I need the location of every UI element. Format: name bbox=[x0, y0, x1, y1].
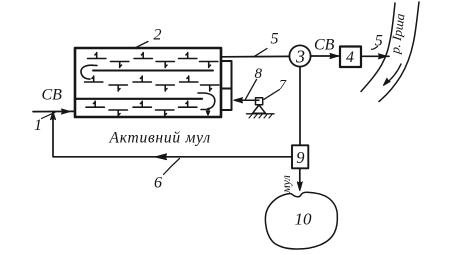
svg-text:СВ: СВ bbox=[42, 87, 63, 104]
aerator row 1 bbox=[88, 53, 218, 68]
leader for label 6 bbox=[164, 159, 180, 175]
ground line with hatching bbox=[247, 113, 275, 115]
svg-text:10: 10 bbox=[295, 209, 313, 228]
line box 4 to river with arrow bbox=[361, 55, 389, 57]
right U-turn hairpin bbox=[198, 93, 215, 114]
leader mark for label 5 right bbox=[372, 47, 378, 50]
leader for label 2 bbox=[136, 42, 149, 48]
baffle divider line upper bbox=[93, 70, 213, 72]
svg-text:5: 5 bbox=[271, 31, 279, 48]
svg-text:Активний мул: Активний мул bbox=[109, 129, 211, 146]
pond 10 outline bbox=[265, 192, 337, 249]
svg-text:6: 6 bbox=[154, 175, 162, 192]
aeration tank 2 outline bbox=[75, 48, 221, 117]
svg-text:9: 9 bbox=[296, 148, 304, 167]
leader for label 8 bbox=[246, 80, 257, 100]
river flow arrow bbox=[385, 64, 402, 85]
leader for label 1 bbox=[42, 112, 56, 118]
line box 9 down to pond with arrow bbox=[299, 168, 301, 188]
inlet line CB with arrow into tank bbox=[33, 110, 75, 112]
svg-text:5: 5 bbox=[375, 33, 383, 50]
box 9 bbox=[292, 145, 308, 168]
svg-text:4: 4 bbox=[346, 49, 354, 66]
aerator row 2 bbox=[85, 76, 219, 91]
river left bank bbox=[361, 3, 395, 92]
svg-text:СВ: СВ bbox=[314, 37, 335, 54]
svg-text:3: 3 bbox=[295, 46, 305, 66]
svg-text:7: 7 bbox=[279, 78, 287, 93]
leader for label 7 bbox=[264, 90, 280, 100]
leader for label 5 bbox=[255, 49, 268, 57]
vertical line circle 3 down to box 9 bbox=[299, 67, 301, 145]
return line arrow pointing left bbox=[156, 154, 167, 160]
svg-text:2: 2 bbox=[154, 27, 162, 44]
box 4 bbox=[340, 47, 361, 68]
settling compartment attached right bbox=[223, 61, 232, 110]
circle 3 secondary clarifier bbox=[289, 45, 310, 66]
left U-turn hairpin bbox=[81, 65, 97, 79]
lever arm 8 with arrow into settler bbox=[235, 99, 260, 101]
svg-text:8: 8 bbox=[255, 66, 263, 82]
svg-text:1: 1 bbox=[34, 117, 42, 134]
baffle divider line lower bbox=[76, 98, 202, 100]
return sludge line from box 9 bbox=[53, 113, 292, 157]
pivot triangle bbox=[253, 105, 266, 113]
pivot square 7 bbox=[256, 98, 263, 105]
river right bank bbox=[379, 2, 419, 102]
svg-text:мул: мул bbox=[279, 175, 293, 194]
arrow up into inlet line bbox=[51, 112, 56, 120]
outlet line 5 tank to circle 3 bbox=[222, 55, 290, 57]
aerator row 3 bbox=[86, 101, 209, 116]
arrow down into bottom channel bbox=[206, 111, 209, 115]
line circle 3 to box 4 with arrow bbox=[311, 55, 339, 57]
